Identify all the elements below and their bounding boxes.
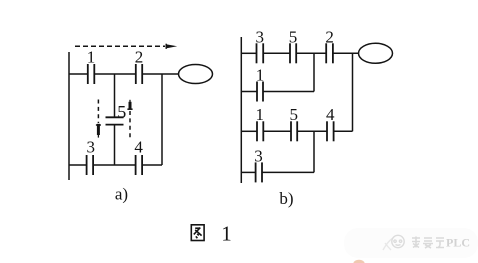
watermark swoosh: [383, 238, 393, 250]
watermark band: [344, 228, 478, 258]
wire b row1 contact5 to contact2: [296, 52, 326, 54]
branch b row3-row4 vertical: [313, 131, 315, 172]
svg-text:a): a): [115, 185, 128, 204]
wire b row1 contact2 to coil: [333, 52, 359, 54]
svg-text:1: 1: [256, 66, 265, 85]
svg-text:3: 3: [87, 138, 96, 157]
contact 5 (a): [106, 102, 127, 125]
svg-text:4: 4: [134, 138, 143, 157]
svg-text:5: 5: [290, 105, 299, 124]
middle branch upper wire (a): [114, 74, 116, 117]
contact 2 (a): [135, 48, 144, 85]
wire b row1 contact3 to contact5: [263, 52, 290, 54]
wire b row3 rail to contact 1: [241, 130, 257, 132]
contact 5 (b row1): [289, 28, 298, 64]
contact 1 (a): [87, 48, 96, 85]
dashed up arrow (a): [127, 100, 132, 140]
contact 4 (a): [134, 138, 143, 176]
svg-text:3: 3: [254, 147, 263, 166]
svg-text:5: 5: [289, 28, 298, 47]
watermark text 我爱学: [412, 237, 444, 249]
right branch (a): [161, 74, 163, 165]
watermark logo: [392, 235, 404, 247]
left power rail (a): [68, 52, 70, 180]
wire a row1 contact2 to coil: [142, 73, 179, 75]
svg-text:5: 5: [117, 102, 126, 122]
svg-text:1: 1: [87, 48, 96, 67]
caption glyph 图: [191, 225, 204, 241]
contact 1 (b row3): [256, 105, 265, 141]
svg-text:1: 1: [256, 105, 265, 124]
svg-text:3: 3: [256, 28, 265, 47]
wire b row3 contact4 to right branch: [334, 130, 353, 132]
wire b row4 contact3 to branch: [262, 171, 314, 173]
svg-text:2: 2: [135, 48, 144, 67]
branch b row1-row2 vertical: [313, 53, 315, 91]
wire a row2 contact3 to contact4: [93, 164, 136, 166]
bottom edge logo remnant: [354, 260, 365, 263]
contact 5 (b row3): [290, 105, 299, 141]
wire b row3 contact5 to contact4: [297, 130, 327, 132]
dashed scan arrow above circuit a: [75, 44, 177, 49]
contact 3 (b row1): [256, 28, 265, 64]
wire b row2 rail to contact 1: [241, 91, 257, 93]
svg-text:4: 4: [326, 105, 335, 124]
contact 3 (b row4): [254, 147, 263, 183]
svg-text:1: 1: [221, 222, 232, 246]
left power rail (b): [240, 37, 242, 183]
middle branch lower wire (a): [114, 125, 116, 165]
dashed down arrow (a): [96, 100, 101, 138]
contact 3 (a): [87, 138, 96, 176]
wire b row3 contact1 to contact5: [263, 130, 291, 132]
contact 1 (b row2): [256, 66, 265, 102]
coil (a): [179, 65, 213, 84]
wire b row2 contact1 to branch: [263, 91, 314, 93]
contact 4 (b row3): [326, 105, 335, 141]
wire a row2 contact4 to right branch: [142, 164, 162, 166]
wire b row4 rail to contact 3: [241, 171, 255, 173]
wire b row1 rail to contact 3: [241, 52, 256, 54]
coil (b): [359, 43, 393, 63]
wire a row1 contact1 to contact2: [94, 73, 136, 75]
contact 2 (b row1): [325, 28, 334, 64]
svg-text:b): b): [279, 189, 293, 208]
svg-text:PLC: PLC: [446, 236, 470, 250]
wire a row1 rail to contact 1: [69, 73, 88, 75]
right branch (b) coil junction to row3: [352, 53, 354, 131]
svg-text:2: 2: [325, 28, 334, 47]
wire a row2 rail to contact 3: [69, 164, 87, 166]
